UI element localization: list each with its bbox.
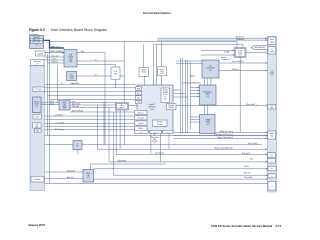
svg-text:THE UNIT: THE UNIT [33, 37, 40, 39]
svg-text:amp: amp [271, 135, 274, 137]
svg-text:BUS: BUS [63, 108, 66, 110]
svg-text:Supply: Supply [270, 41, 274, 43]
svg-text:ROM: ROM [137, 88, 140, 90]
svg-text:U?: U? [95, 60, 97, 62]
svg-text:U?: U? [95, 75, 97, 77]
svg-text:encoder: encoder [34, 104, 40, 106]
svg-text:CLOCK: CLOCK [69, 76, 74, 78]
svg-text:KEYPpad: KEYPpad [52, 62, 58, 64]
svg-text:SP U(1): SP U(1) [244, 166, 249, 168]
svg-text:(U36): (U36) [69, 61, 73, 63]
svg-text:USB Mon: USB Mon [168, 107, 174, 109]
svg-text:Tone: Tone [72, 101, 75, 103]
svg-text:PTT (sw): PTT (sw) [36, 89, 43, 91]
svg-text:Flash Memory: Flash Memory [203, 92, 212, 94]
svg-text:Power: Power [270, 39, 274, 41]
svg-text:4Mx16: 4Mx16 [206, 122, 210, 124]
svg-text:USB drv: USB drv [138, 128, 143, 130]
svg-text:LCD: LCD [35, 124, 38, 126]
svg-text:U?: U? [71, 74, 73, 76]
svg-text:MIC audio sig: MIC audio sig [55, 129, 64, 131]
svg-text:SPI CLKS: SPI CLKS [152, 141, 158, 143]
svg-text:PRESS TLK: PRESS TLK [33, 39, 41, 41]
svg-text:ROM: ROM [153, 139, 156, 141]
svg-text:TxD: TxD [137, 97, 139, 99]
svg-text:MIC TO TLK: MIC TO TLK [33, 42, 41, 44]
svg-text:Clocks used: Clocks used [51, 56, 59, 58]
svg-text:Circuit Description: Circuit Description [143, 11, 171, 15]
svg-text:Bus: Bus [121, 105, 124, 107]
svg-text:ON, OFF lines: ON, OFF lines [236, 36, 245, 38]
svg-text:Tally: Tally [250, 158, 253, 160]
svg-text:Figure 5.3: Figure 5.3 [29, 28, 45, 32]
svg-text:Prog sqlch: Prog sqlch [138, 118, 144, 120]
svg-text:(U1): (U1) [150, 109, 154, 111]
svg-text:U?: U? [61, 83, 63, 85]
svg-text:Conn: Conn [270, 185, 273, 187]
svg-text:U?: U? [154, 143, 156, 145]
svg-text:Ring: Ring [81, 51, 84, 53]
svg-text:Keypad: Keypad [37, 53, 43, 55]
svg-text:SPI bus clocks: SPI bus clocks [150, 137, 159, 139]
svg-text:SPI Cable: SPI Cable [168, 105, 174, 107]
svg-text:(U46): (U46) [160, 73, 164, 75]
svg-text:SPI bus: SPI bus [139, 132, 144, 134]
svg-text:GPT Timer: GPT Timer [157, 122, 164, 124]
svg-text:Clock used: Clock used [72, 106, 79, 108]
svg-text:Volume: Volume [238, 52, 243, 54]
svg-text:Power &: Power & [160, 69, 165, 71]
svg-text:USB Drive: USB Drive [232, 69, 239, 71]
svg-text:Sec (1): Sec (1) [52, 59, 57, 61]
svg-text:U?: U? [36, 63, 38, 65]
svg-text:Window: Window [35, 179, 41, 181]
svg-text:+/- 5v adj (SP): +/- 5v adj (SP) [55, 123, 64, 125]
svg-text:Balance: Balance [34, 102, 39, 104]
svg-text:Sel.(2): Sel.(2) [50, 103, 55, 105]
svg-text:Load Shared SIMM Board(+): Load Shared SIMM Board(+) [183, 83, 201, 85]
svg-text:U?: U? [77, 143, 79, 145]
svg-text:Memory: Memory [163, 90, 168, 92]
svg-text:Vol.(1): Vol.(1) [50, 101, 55, 103]
svg-text:LED: LED [35, 126, 38, 128]
svg-text:KEYBD: KEYBD [270, 73, 274, 75]
svg-text:U? clock: U? clock [153, 132, 158, 134]
svg-text:POWER lines: POWER lines [236, 39, 245, 41]
svg-text:U ch: U ch [270, 106, 273, 108]
svg-text:U?: U? [36, 45, 38, 47]
svg-text:regs: regs [164, 99, 167, 101]
svg-text:User Interface Board Block Dia: User Interface Board Block Diagram [51, 28, 107, 32]
svg-text:(U38): (U38) [70, 78, 74, 80]
svg-text:MIC: MIC [36, 130, 39, 132]
svg-text:Prog: Prog [270, 154, 273, 156]
svg-text:keypad: keypad [270, 51, 274, 53]
svg-text:Flash: Flash [160, 71, 163, 73]
svg-text:Cable: Cable [270, 156, 273, 158]
svg-text:CODEC: CODEC [62, 106, 67, 108]
svg-text:address: address [190, 76, 195, 78]
svg-text:5100 ES Series Portable Radio: 5100 ES Series Portable Radio Service Ma… [211, 224, 282, 228]
svg-text:Flash: Flash [164, 94, 167, 96]
svg-text:LCD/KB: LCD/KB [68, 57, 73, 59]
svg-text:January 2007: January 2007 [28, 223, 46, 227]
svg-text:Low 4 lines (4): Low 4 lines (4) [155, 152, 165, 154]
svg-text:CTRL: CTRL [69, 59, 73, 61]
svg-text:On / Off: On / Off [238, 50, 243, 52]
svg-text:LCD: LCD [271, 71, 274, 73]
svg-text:Bus: Bus [209, 66, 212, 68]
svg-text:8Mx16: 8Mx16 [206, 94, 210, 96]
svg-text:32kHz: 32kHz [166, 132, 170, 134]
